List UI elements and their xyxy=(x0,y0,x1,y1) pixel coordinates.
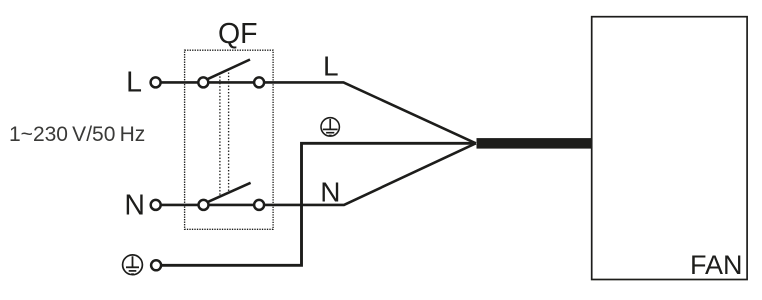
svg-text:L: L xyxy=(323,51,339,82)
pivot circle lower pole xyxy=(199,200,209,210)
contact circle upper pole xyxy=(254,77,264,87)
switch blade lower pole xyxy=(207,183,251,203)
terminal circle earth xyxy=(151,260,161,270)
wire earth run xyxy=(161,143,476,265)
fan enclosure xyxy=(592,17,747,280)
earth symbol bottom xyxy=(123,255,143,275)
wire L terminal to pole xyxy=(156,81,260,84)
svg-text:N: N xyxy=(124,189,145,221)
linkage dotted line left xyxy=(219,73,221,197)
svg-text:QF: QF xyxy=(218,18,258,50)
svg-text:L: L xyxy=(126,67,142,99)
wire N terminal to pole xyxy=(156,204,259,207)
cable to fan xyxy=(477,138,592,149)
pivot circle upper pole xyxy=(198,77,208,87)
wire L output to convergence xyxy=(264,82,476,143)
breaker QF dashed enclosure xyxy=(185,50,274,229)
terminal circle L xyxy=(151,77,161,87)
switch blade upper pole xyxy=(207,60,250,80)
terminal circle N xyxy=(151,200,161,210)
linkage dotted line right xyxy=(228,69,230,192)
svg-text:N: N xyxy=(320,176,340,207)
svg-text:FAN: FAN xyxy=(690,250,743,280)
earth symbol mid xyxy=(321,118,339,136)
wire N output to convergence xyxy=(264,143,476,205)
contact circle lower pole xyxy=(254,200,264,210)
svg-text:1~230 V/50 Hz: 1~230 V/50 Hz xyxy=(9,123,145,146)
